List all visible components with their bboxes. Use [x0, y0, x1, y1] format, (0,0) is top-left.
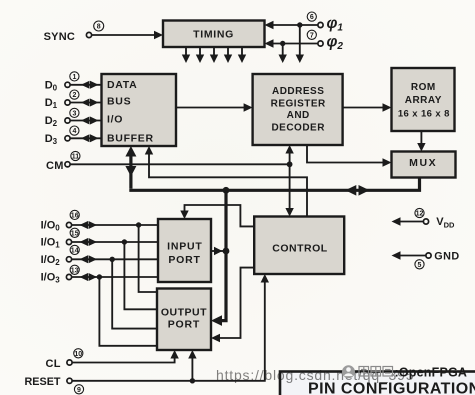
pin phi2 (7) [307, 30, 343, 52]
wire I/O0 branch to output port [139, 225, 157, 292]
arrowhead into ROM [383, 103, 392, 111]
wire SYNC to TIMING [92, 34, 158, 36]
arrowhead CL up into output port [170, 350, 178, 359]
block ADDRESS REGISTER AND DECODER [253, 74, 343, 145]
block TIMING [163, 21, 265, 48]
arrowhead RESET up into control bottom [261, 274, 269, 283]
arrowheads bidirectional D1 [81, 99, 90, 107]
arrowhead thin up into buffer bottom [145, 146, 153, 155]
wire D2 to buffer [70, 120, 101, 122]
wire I/O3 branch to output port [99, 277, 157, 346]
svg-text:ROM: ROM [411, 82, 436, 93]
junction dot I/O1 branch [122, 239, 127, 244]
wire address register to ROM [343, 107, 386, 109]
watermark wechat text [359, 367, 393, 377]
svg-text:14: 14 [71, 248, 79, 255]
junction dot phi1 [297, 22, 302, 27]
arrowhead timing clock 2 [196, 55, 204, 64]
block MUX [392, 152, 456, 178]
arrowhead up into address register bottom [285, 145, 293, 154]
wire phi2 to TIMING [268, 43, 318, 45]
wire I/O2 branch to output port [112, 259, 157, 328]
svg-text:10: 10 [74, 351, 82, 358]
wire address register / control vertical [289, 151, 291, 211]
arrowhead RESET branch up into output port [188, 350, 196, 359]
pin configuration title box (next figure, cropped) [280, 372, 475, 395]
svg-text:11: 11 [72, 154, 80, 161]
svg-text:3: 3 [72, 111, 76, 118]
svg-text:9: 9 [77, 387, 81, 394]
wire control left to output port right [217, 268, 254, 338]
arrowhead ROM into MUX [417, 143, 425, 152]
wire control to input port top [185, 205, 255, 226]
wire phi1 to TIMING [268, 24, 318, 26]
wire timing clock arrow 1 [185, 47, 187, 55]
block OUTPUT PORT [157, 289, 211, 351]
arrowheads bidirectional I/O3 [80, 273, 89, 281]
arrowhead timing clock 5 [238, 55, 246, 64]
junction dot RESET branch [190, 378, 195, 383]
svg-text:ADDRESS: ADDRESS [272, 86, 324, 97]
wire I/O1 branch to output port [124, 242, 157, 309]
wire thick bus vertical to output port [217, 190, 228, 320]
arrowhead timing clock 3 [210, 55, 218, 64]
arrowheads bidirectional D3 [81, 134, 90, 142]
pin CM (11) [46, 151, 80, 172]
wire ROM to MUX [420, 131, 422, 146]
svg-text:CL: CL [46, 358, 61, 370]
arrowhead thick into output port right [211, 315, 222, 326]
arrowheads bidirectional D2 [81, 117, 90, 125]
wire timing clock arrow 2 [199, 47, 201, 55]
junction dot I/O0 branch [136, 222, 141, 227]
svg-text:BUFFER: BUFFER [107, 132, 154, 144]
arrowhead down into control top [285, 208, 293, 217]
pin D0 (1) [45, 72, 79, 93]
svg-text:8: 8 [97, 24, 101, 31]
svg-text:I/O: I/O [107, 113, 123, 125]
pin I/O1 (15) [41, 228, 80, 250]
pin D3 (4) [45, 126, 79, 146]
svg-text:1: 1 [72, 74, 76, 81]
svg-text:MUX: MUX [409, 157, 437, 169]
svg-text:PORT: PORT [168, 254, 200, 266]
arrowheads bidirectional thick bus [345, 185, 356, 196]
wire I/O2 to input port [72, 258, 158, 260]
pin GND (5) [415, 250, 460, 269]
pin D1 (2) [45, 90, 79, 110]
arrowhead phi1 branch down [296, 55, 304, 64]
wire RESET branch to output port bottom [191, 356, 193, 381]
pin D2 (3) [45, 108, 79, 128]
arrowhead VDD pointing left [392, 217, 401, 225]
wire D0 to buffer [70, 84, 101, 86]
block DATA BUS I/O BUFFER [102, 74, 177, 146]
block CONTROL [254, 217, 344, 275]
svg-text:DECODER: DECODER [271, 123, 325, 134]
svg-text:ARRAY: ARRAY [405, 95, 442, 106]
svg-text:SYNC: SYNC [44, 31, 75, 43]
junction dot phi2 [280, 41, 285, 46]
svg-text:TIMING: TIMING [193, 28, 234, 40]
wire I/O0 to input port [72, 224, 158, 226]
svg-text:AND: AND [287, 110, 310, 121]
pin SYNC (8) [44, 21, 104, 43]
svg-text:5: 5 [418, 262, 422, 269]
svg-text:16 x 16 x 8: 16 x 16 x 8 [398, 108, 450, 119]
watermark wechat logo [342, 365, 355, 378]
svg-text:7: 7 [310, 32, 314, 39]
wire CL to output port bottom [72, 356, 174, 363]
svg-text:16: 16 [71, 213, 79, 220]
svg-text:REGISTER: REGISTER [271, 98, 326, 109]
wire buffer to address register [176, 107, 247, 109]
svg-text:CONTROL: CONTROL [272, 242, 327, 254]
wire D1 to buffer [70, 102, 101, 104]
arrowhead down into input port top [180, 211, 188, 220]
pin phi1 (6) [307, 12, 343, 34]
wire I/O1 to input port [72, 241, 158, 243]
arrowhead GND pointing left [392, 251, 401, 259]
junction dot I/O2 branch [110, 257, 115, 262]
svg-text:DATA: DATA [107, 79, 137, 91]
wire timing clock arrow 3 [213, 47, 215, 55]
svg-text:CM: CM [46, 160, 64, 172]
junction dot input port bus [223, 248, 230, 255]
wire timing clock arrow 4 [227, 47, 229, 55]
pin CL (10) [46, 349, 83, 370]
arrowheads bidirectional I/O2 [80, 255, 89, 263]
wire I/O3 to input port [72, 276, 158, 278]
wire timing clock arrow 5 [241, 47, 243, 55]
svg-text:OUTPUT: OUTPUT [161, 306, 207, 318]
pin I/O3 (13) [41, 265, 80, 285]
svg-text:https:/‌/blog.csdn.net/qq_395: https:/‌/blog.csdn.net/qq_395 [216, 367, 414, 383]
arrowhead thick down mid bus [125, 166, 136, 177]
wire input port right to bus dot [211, 250, 226, 252]
svg-text:15: 15 [71, 230, 79, 237]
svg-text:BUS: BUS [107, 96, 131, 108]
wire GND arrow line [396, 255, 426, 257]
svg-text:PORT: PORT [168, 319, 200, 331]
junction dot CM / vertical [287, 161, 293, 167]
wire thick bus buffer vertical [129, 152, 132, 189]
svg-text:13: 13 [71, 267, 79, 274]
arrowhead phi1 into TIMING [265, 21, 274, 29]
junction dot thick bus mid [223, 187, 230, 194]
pin I/O2 (14) [41, 245, 80, 267]
wire D3 to buffer [70, 137, 101, 139]
svg-text:RESET: RESET [25, 376, 61, 388]
svg-text:12: 12 [416, 211, 424, 218]
wire VDD arrow line [396, 221, 423, 223]
svg-text::OpenFPGA: :OpenFPGA [395, 366, 468, 380]
arrowhead input port to bus dot [214, 247, 223, 255]
arrowheads bidirectional I/O1 [80, 238, 89, 246]
arrowhead phi2 into TIMING [265, 39, 274, 47]
arrowhead buffer to address register [244, 103, 253, 111]
arrowhead into output port right (from control) [211, 334, 220, 342]
arrowhead addr-bottom into MUX [383, 158, 392, 166]
wire thin buffer-control: buffer bottom down, right, down into control top [149, 152, 307, 217]
arrowheads bidirectional I/O0 [80, 221, 89, 229]
svg-text:INPUT: INPUT [167, 240, 203, 252]
arrowhead thick up into buffer bottom [125, 146, 136, 157]
arrowhead phi2 branch down [279, 55, 287, 64]
pin I/O0 (16) [41, 210, 80, 232]
arrowhead timing clock 1 [182, 55, 190, 64]
wire thick bus horizontal to MUX [129, 178, 419, 192]
wire phi1 branch down [299, 25, 301, 55]
arrowhead SYNC into TIMING [154, 31, 163, 39]
pin RESET (9) [25, 376, 84, 394]
wire CM line [70, 163, 289, 165]
arrowhead timing clock 4 [224, 55, 232, 64]
wire phi2 branch down [282, 44, 284, 56]
wire address register bottom to MUX [307, 145, 386, 163]
svg-text:2: 2 [72, 92, 76, 99]
svg-text:6: 6 [310, 14, 314, 21]
pin VDD (12) [415, 208, 455, 229]
junction dot I/O3 branch [97, 274, 102, 279]
svg-text:4: 4 [72, 128, 76, 135]
thick bus wires [129, 152, 419, 321]
wire RESET to control bottom [72, 280, 265, 381]
block ROM ARRAY [392, 68, 455, 131]
svg-text:GND: GND [434, 250, 460, 262]
block INPUT PORT [158, 219, 211, 282]
arrowheads bidirectional D0 [81, 81, 90, 89]
